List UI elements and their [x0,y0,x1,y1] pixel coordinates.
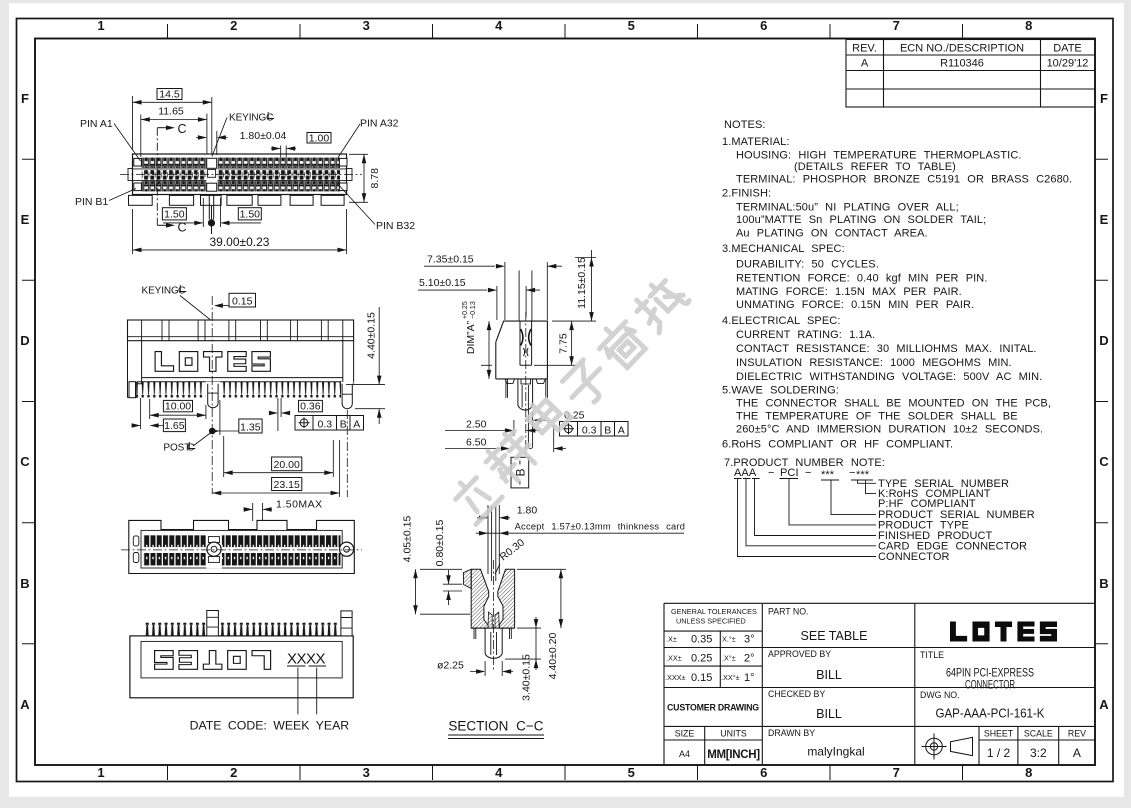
svg-text:B: B [1099,576,1108,591]
zone letters right [1099,91,1109,712]
svg-text:A: A [20,697,30,712]
svg-text:CHECKED BY: CHECKED BY [768,689,825,699]
svg-text:6: 6 [760,765,767,780]
svg-text:3.40±0.15: 3.40±0.15 [521,654,533,701]
svg-text:8: 8 [1025,18,1032,33]
zone ticks left/right [22,159,35,644]
svg-text:DRAWN BY: DRAWN BY [768,728,815,738]
contact springs [521,329,531,346]
left end stub [129,382,136,398]
svg-text:MATING FORCE: 1.15N MAX PER PA: MATING FORCE: 1.15N MAX PER PAIR. [736,286,962,298]
svg-text:1.50: 1.50 [240,209,261,221]
svg-text:R110346: R110346 [940,58,984,70]
svg-text:39.00±0.23: 39.00±0.23 [210,235,270,249]
svg-text:DIM”A”: DIM”A” [465,320,477,354]
svg-text:1.50MAX: 1.50MAX [276,499,323,511]
left end ear [128,169,133,181]
svg-text:1 / 2: 1 / 2 [987,746,1011,760]
inner cavity rect [141,530,342,568]
center contact hatch [488,612,492,628]
svg-text:UNITS: UNITS [720,729,747,739]
post hole circles (center) [207,542,221,556]
front pins comb [134,382,342,398]
svg-text:10/29'12: 10/29'12 [1047,58,1089,70]
section C-C hatched body [471,569,489,628]
section line C (dash-dot) [156,128,158,226]
pin row A [142,158,341,168]
dim 8.78 (vertical right) [349,154,368,202]
post hole circles (right) [340,542,354,556]
svg-text:1: 1 [97,18,104,33]
contact slot [520,321,532,365]
top-left step flag [464,569,472,588]
svg-text:1: 1 [97,765,104,780]
svg-text:CONNECTOR: CONNECTOR [965,678,1015,692]
post centerline + post dot [209,195,213,220]
svg-text:KEYING: KEYING [142,286,180,297]
wm char dian [523,392,570,439]
svg-text:−: − [768,467,775,479]
right end post (front) [341,382,354,410]
svg-text:3:2: 3:2 [1030,746,1047,760]
svg-text:GENERAL TOLERANCES: GENERAL TOLERANCES [671,607,757,616]
svg-text:7.35±0.15: 7.35±0.15 [427,253,474,265]
svg-text:PIN B1: PIN B1 [75,196,108,208]
svg-text:CONNECTOR: CONNECTOR [878,551,950,563]
svg-text:5.10±0.15: 5.10±0.15 [419,277,466,289]
svg-text:APPROVED BY: APPROVED BY [768,649,831,659]
svg-text:0.25: 0.25 [691,653,712,665]
svg-text:7: 7 [893,765,900,780]
center post (side) [518,379,533,410]
svg-text:.XXX±: .XXX± [665,673,686,682]
svg-text:1.35: 1.35 [240,421,261,433]
svg-text:4.40±0.15: 4.40±0.15 [366,312,378,359]
svg-text:2: 2 [230,765,237,780]
svg-text:UNLESS SPECIFIED: UNLESS SPECIFIED [676,617,746,626]
tolerance table text [665,607,757,682]
feature control frame (front) [295,416,364,431]
top strip divider slots [142,320,343,341]
back right post [341,611,352,636]
svg-text:6.RoHS COMPLIANT OR HF COMPLIA: 6.RoHS COMPLIANT OR HF COMPLIANT. [722,439,953,451]
keying post (front) [206,382,221,409]
svg-text:4: 4 [495,18,503,33]
dim 1.00 boxed [307,133,331,144]
svg-text:RETENTION FORCE: 0.40 kgf MIN: RETENTION FORCE: 0.40 kgf MIN PER PIN. [736,272,988,284]
terminal band B [143,553,341,565]
svg-text:BILL: BILL [816,707,842,721]
svg-text:D: D [20,333,29,348]
svg-text:260±5°C AND IMMERSION DURATION: 260±5°C AND IMMERSION DURATION 10±2 SECO… [736,423,1043,435]
section B flag [511,457,529,488]
svg-text:+0.25: +0.25 [462,301,469,319]
svg-text:E: E [1100,212,1109,227]
svg-text:3.MECHANICAL SPEC:: 3.MECHANICAL SPEC: [722,243,845,255]
sheet scale rev headers [984,729,1086,739]
bottom view outline with notched top edge [129,520,354,573]
front body face [128,341,354,398]
svg-text:1.80±0.04: 1.80±0.04 [240,130,287,142]
date code leaders [298,668,317,715]
svg-text:A: A [861,58,869,70]
svg-text:3°: 3° [744,634,755,646]
keying centerline (dash-dot vertical) [211,296,213,494]
svg-text:11.15±0.15: 11.15±0.15 [576,257,588,309]
svg-text:C: C [1099,454,1109,469]
product number code line [734,467,870,481]
product number tree labels [878,478,1035,563]
svg-text:E: E [21,212,30,227]
dim 0.15 boxed [229,293,256,307]
svg-text:DATE: DATE [1053,43,1082,55]
wm char shang [593,315,650,372]
dim 10.00 boxed [163,400,192,411]
left end slots [133,536,139,546]
svg-text:1°: 1° [744,672,755,684]
svg-text:4.40±0.20: 4.40±0.20 [547,633,559,680]
svg-text:ø2.25: ø2.25 [437,659,464,671]
post dot (front) [209,428,216,435]
corner squares [134,158,347,190]
svg-text:0.15: 0.15 [232,295,253,307]
svg-text:7: 7 [893,18,900,33]
svg-text:1.80: 1.80 [517,505,538,517]
svg-text:2°: 2° [744,653,755,665]
back pins comb [144,623,339,636]
svg-text:4.05±0.15: 4.05±0.15 [402,516,414,563]
revision table [846,40,1095,108]
svg-text:TERMINAL:50u” NI PLATING OVER: TERMINAL:50u” NI PLATING OVER ALL; [736,202,959,214]
svg-text:ECN NO./DESCRIPTION: ECN NO./DESCRIPTION [900,43,1024,55]
svg-text:C: C [187,442,195,454]
svg-text:A: A [618,424,625,436]
terminal band A [143,535,341,547]
svg-text:AAA: AAA [734,467,757,479]
svg-text:1.MATERIAL:: 1.MATERIAL: [722,136,790,148]
svg-text:−: − [849,467,856,479]
mirrored LOTES logo [155,651,271,670]
third angle projection symbol [922,734,973,760]
wm char cheng [631,274,690,333]
svg-text:10.00: 10.00 [165,401,191,413]
product number tree lines [734,479,876,557]
dim 1.50 left boxed [162,208,186,220]
section line C bottom flag [157,224,172,226]
svg-text:5: 5 [628,765,635,780]
svg-text:DATE CODE: WEEK YEAR: DATE CODE: WEEK YEAR [190,719,350,733]
svg-text:A: A [1073,746,1081,760]
wm char xin [482,428,541,487]
svg-text:C: C [266,112,274,124]
back view outer body [130,636,353,698]
dim 20.00 boxed [272,457,302,471]
svg-text:0.36: 0.36 [300,401,321,413]
svg-text:PIN A32: PIN A32 [360,118,399,130]
svg-text:F: F [21,91,29,106]
svg-text:SIZE: SIZE [675,729,695,739]
centerline (bottom view) [121,549,362,551]
post 1.50 dim lines [163,198,261,227]
svg-text:INSULATION RESISTANCE: 1000 ME: INSULATION RESISTANCE: 1000 MEGOHMS MIN. [736,357,1012,369]
zone letters left [20,91,30,712]
svg-text:A: A [1099,697,1109,712]
svg-text:4.ELECTRICAL SPEC:: 4.ELECTRICAL SPEC: [722,315,841,327]
dim 1.50 right boxed [238,208,261,220]
right post centerline extended [346,410,348,497]
keying slot whiteout [206,156,217,194]
bottom standoff detail [505,379,546,384]
svg-text:CUSTOMER DRAWING: CUSTOMER DRAWING [667,703,759,713]
svg-text:8: 8 [1025,765,1032,780]
section body bottom [471,627,514,629]
dim 1.35 boxed [239,419,262,433]
front body top strip [128,320,354,341]
svg-text:KEYING: KEYING [229,113,267,124]
svg-text:.X±: .X± [666,635,677,644]
svg-text:.X°±: .X°± [722,654,736,663]
svg-text:100u”MATTE Sn PLATING ON SOLDE: 100u”MATTE Sn PLATING ON SOLDER TAIL; [736,214,986,226]
svg-text:TITLE: TITLE [920,650,944,660]
dim 1.65 boxed [163,419,185,432]
solder tail pin [528,409,532,449]
svg-text:DIELECTRIC WITHSTANDING VOLTAG: DIELECTRIC WITHSTANDING VOLTAGE: 500V AC… [736,371,1042,383]
svg-text:.XX°±: .XX°± [721,673,740,682]
svg-text:PIN B32: PIN B32 [376,220,415,232]
right end ear [347,169,353,181]
card edge lines [488,505,499,581]
section centerline [493,560,495,672]
dim 14.5 [157,89,182,100]
svg-text:DWG NO.: DWG NO. [920,690,960,700]
svg-text:REV: REV [1068,729,1086,739]
svg-text:***: *** [856,469,870,481]
LOTES logo (title block) [950,622,1057,642]
svg-text:SHEET: SHEET [984,729,1014,739]
svg-text:2: 2 [230,18,237,33]
side body outline [496,321,548,379]
svg-text:−0.13: −0.13 [470,301,477,319]
svg-text:BILL: BILL [816,668,842,682]
LOTES embossed outline logo [155,352,270,372]
svg-text:THE CONNECTOR SHALL BE MOUNTED: THE CONNECTOR SHALL BE MOUNTED ON THE PC… [736,398,1051,410]
svg-text:NOTES:: NOTES: [724,119,766,131]
svg-text:B: B [20,576,29,591]
zone numbers bottom [97,765,1032,780]
pin row B [142,181,341,191]
svg-text:C: C [20,454,30,469]
svg-text:PCI: PCI [780,467,799,479]
svg-text:−: − [805,467,812,479]
section line C top flag [157,127,172,129]
svg-text:3: 3 [363,765,370,780]
svg-text:F: F [1100,91,1108,106]
top view body outline [133,154,347,195]
svg-text:GAP-AAA-PCI-161-K: GAP-AAA-PCI-161-K [936,707,1046,721]
back inner panel [141,641,342,678]
svg-text:2.50: 2.50 [466,419,487,431]
svg-text:6: 6 [760,18,767,33]
title block lines [664,603,1095,765]
wm char li [447,469,502,524]
svg-text:0.35: 0.35 [691,634,712,646]
svg-text:REV.: REV. [852,43,877,55]
svg-text:0.3: 0.3 [582,424,597,436]
svg-text:23.15: 23.15 [274,479,300,491]
centerline of top view [120,174,362,176]
zone numbers top [97,18,1032,33]
svg-text:A4: A4 [679,749,690,759]
svg-text:5.WAVE SOLDERING:: 5.WAVE SOLDERING: [722,384,839,396]
vertical centerline [525,312,527,455]
svg-text:6.50: 6.50 [466,437,487,449]
svg-text:SEE TABLE: SEE TABLE [801,629,868,643]
svg-text:malyIngkal: malyIngkal [807,745,864,759]
svg-text:PART NO.: PART NO. [768,607,809,617]
notes text block [722,119,1072,469]
svg-text:0.80±0.15: 0.80±0.15 [434,520,446,567]
svg-text:14.5: 14.5 [159,89,180,101]
svg-text:1.00: 1.00 [309,132,330,144]
svg-text:7.75: 7.75 [558,333,570,354]
svg-text:Au PLATING ON CONTACT AREA.: Au PLATING ON CONTACT AREA. [736,228,928,240]
svg-text:X.°±: X.°± [722,635,736,644]
svg-text:C: C [178,285,186,297]
svg-text:CURRENT RATING: 1.1A.: CURRENT RATING: 1.1A. [736,329,875,341]
feature control frame (side) [560,422,629,437]
dim 0.36 boxed [299,400,323,411]
svg-text:B: B [340,418,347,430]
size / units cells [675,729,747,739]
svg-text:Accept 1.57±0.13mm thinkness: Accept 1.57±0.13mm thinkness card [515,522,686,532]
svg-text:XXXX: XXXX [287,651,326,668]
svg-text:HOUSING: HIGH TEMPERATURE THER: HOUSING: HIGH TEMPERATURE THERMOPLASTIC. [736,150,1022,162]
svg-text:(DETAILS REFER TO TABLE): (DETAILS REFER TO TABLE) [794,161,956,173]
svg-text:1.65: 1.65 [164,420,185,432]
svg-text:0.3: 0.3 [317,418,332,430]
svg-text:B: B [604,424,611,436]
svg-text:CONTACT RESISTANCE: 30 MILLIOH: CONTACT RESISTANCE: 30 MILLIOHMS MAX. IN… [736,343,1037,355]
svg-text:2.FINISH:: 2.FINISH: [722,188,771,200]
section center post [485,628,502,658]
svg-text:5: 5 [628,18,635,33]
svg-text:8.78: 8.78 [369,168,381,189]
side legs [506,379,548,398]
mounting tabs row [129,195,345,205]
svg-text:MM[INCH]: MM[INCH] [707,749,760,761]
svg-text:11.65: 11.65 [158,106,184,118]
svg-text:THE TEMPERATURE OF THE SOLDER: THE TEMPERATURE OF THE SOLDER SHALL BE [736,410,1018,422]
middle slot band [133,169,346,181]
dim 23.15 boxed [272,478,302,491]
svg-text:DURABILITY: 50 CYCLES.: DURABILITY: 50 CYCLES. [736,258,879,270]
svg-text:.XX±: .XX± [666,654,682,663]
svg-text:20.00: 20.00 [274,459,300,471]
svg-text:3: 3 [363,18,370,33]
svg-text:SECTION C−C: SECTION C−C [448,719,543,734]
section legs [474,628,511,639]
svg-text:4: 4 [495,765,503,780]
svg-text:D: D [1099,333,1108,348]
svg-text:A: A [353,418,360,430]
svg-text:TERMINAL: PHOSPHOR BRONZE C519: TERMINAL: PHOSPHOR BRONZE C5191 OR BRASS… [736,174,1072,186]
svg-text:0.15: 0.15 [691,672,712,684]
wm char zi [559,356,614,411]
svg-text:C: C [178,122,187,136]
svg-text:SCALE: SCALE [1024,729,1053,739]
svg-text:UNMATING FORCE: 0.15N MIN PER: UNMATING FORCE: 0.15N MIN PER PAIR. [736,299,974,311]
svg-text:PIN A1: PIN A1 [80,118,113,130]
back left post [207,611,219,636]
keying whiteout (bottom view) [206,531,222,568]
svg-text:1.50: 1.50 [164,209,185,221]
svg-text:***: *** [821,469,835,481]
